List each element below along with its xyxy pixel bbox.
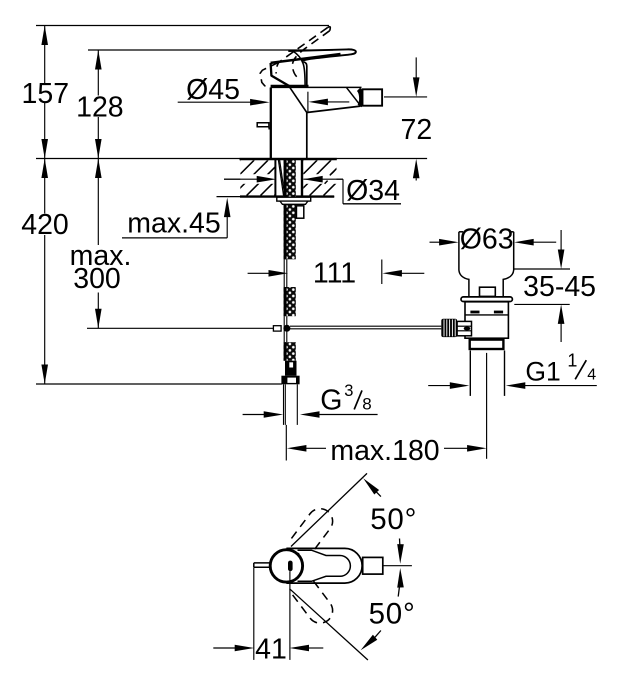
dashed raised handle tip: [327, 27, 330, 31]
angle arrow upper diagonal: [363, 478, 379, 494]
svg-text:G: G: [320, 385, 342, 417]
svg-text:max.180: max.180: [330, 435, 439, 467]
reference line max300: [87, 327, 273, 329]
dimension 41 arrows: [213, 647, 235, 649]
handle lever holder edge: [271, 54, 341, 63]
redraw O34 dim line over hatch: [224, 178, 257, 180]
hose braid segment 1: [284, 160, 296, 259]
rod junction dot: [283, 325, 290, 332]
svg-text:8: 8: [362, 394, 371, 413]
svg-text:Ø63: Ø63: [460, 223, 514, 255]
handle neck front curve: [293, 51, 305, 86]
reference line top of handle (128): [88, 49, 333, 51]
drain flange: [461, 297, 512, 302]
hatch gap band left: [240, 174, 274, 184]
dimension O34 left arrow: [224, 178, 257, 180]
dimension 35-45 arrows: [560, 230, 562, 251]
drain tailpipe: [469, 351, 471, 396]
svg-text:Ø45: Ø45: [186, 74, 240, 106]
shank slanted edge lines: [278, 160, 283, 196]
mounting washer: [277, 197, 311, 201]
extension line faucet center (max180): [285, 425, 287, 461]
drain body slots: [470, 311, 479, 314]
svg-text:50°: 50°: [370, 503, 417, 536]
dashed raised handle edge A: [276, 28, 327, 74]
svg-text:41: 41: [255, 634, 287, 666]
svg-text:3: 3: [344, 382, 353, 400]
svg-text:Ø34: Ø34: [346, 175, 400, 207]
reference line drain flange (35-45): [514, 303, 569, 305]
drain neck: [459, 270, 514, 297]
angle arrow lower vertical: [397, 568, 404, 588]
extension line spout tip (111): [381, 260, 383, 285]
extension line stub (41): [253, 568, 255, 660]
svg-text:50°: 50°: [369, 598, 416, 631]
drain cup sides: [458, 232, 460, 270]
handle base outline: [271, 63, 290, 86]
supply pipe: [283, 384, 285, 425]
handle neck right edge: [304, 62, 307, 87]
dimension line 128/max300: [97, 50, 99, 96]
hose thin connector 1: [283, 259, 285, 287]
svg-text:4: 4: [587, 367, 596, 384]
svg-text:G1: G1: [525, 357, 560, 387]
dimension O45 right arrow: [308, 99, 328, 106]
dimension G1-1/4 arrows: [428, 385, 451, 387]
svg-text:111: 111: [313, 258, 356, 290]
leader max45: [122, 237, 227, 239]
hose braid segment 3: [284, 342, 296, 361]
dimension G3/8 arrows: [243, 414, 264, 416]
hose braid segment 2: [284, 287, 296, 316]
extension line O45: [307, 92, 309, 112]
svg-text:35-45: 35-45: [523, 271, 596, 303]
svg-text:157: 157: [22, 78, 70, 110]
svg-text:420: 420: [21, 209, 69, 241]
aerator dark crescent: [359, 89, 362, 106]
dimension 111 right arrow: [382, 270, 402, 277]
drain cup top edge segments: [459, 231, 463, 233]
svg-text:72: 72: [401, 114, 433, 146]
faucet body right edge: [306, 113, 308, 159]
hatch stub right upper: [330, 171, 334, 175]
clamp screw block: [296, 206, 304, 218]
svg-text:128: 128: [76, 91, 124, 123]
rod adapter to drain: [457, 321, 471, 335]
plan view indicator dots: [297, 553, 299, 555]
svg-text:max.45: max.45: [127, 207, 220, 239]
G3/8 fitting upper: [285, 361, 297, 376]
dimension max180 arrows: [287, 445, 307, 452]
counter hole left edge: [274, 159, 276, 197]
drain body mid line: [465, 314, 508, 316]
angle arrow lower diagonal: [361, 635, 378, 651]
spout end slant line: [347, 88, 361, 106]
mousseur rectangle: [363, 89, 383, 105]
G3/8 fitting nut: [281, 376, 299, 385]
handle lever blade: [288, 49, 356, 61]
bottom reference line (420): [36, 383, 282, 385]
hose thin connector 2: [283, 316, 285, 342]
plan view handle inner outline: [298, 550, 351, 581]
countertop underside line: [217, 196, 335, 198]
extension line pivot (41): [289, 571, 291, 660]
dashed raised handle edge B: [293, 31, 330, 79]
drain knob rect: [480, 287, 496, 296]
plan view body circle: [270, 550, 302, 582]
svg-text:1: 1: [567, 351, 577, 371]
faucet body/spout top edge: [271, 86, 362, 88]
drain lower band: [470, 340, 504, 349]
plan view mousseur square: [363, 557, 383, 574]
plan view handle outer outline: [286, 548, 362, 583]
spout underside edge: [307, 106, 361, 112]
counter hole right edge: [301, 159, 303, 197]
dimension O63 right arrow: [514, 239, 534, 246]
plan view pivot blob: [288, 561, 293, 572]
dimension O45 left arrow: [178, 101, 251, 103]
body-spout junction diagonal: [290, 87, 307, 112]
dimension O34 right arrow: [303, 176, 323, 183]
angle arrow upper vertical: [397, 544, 404, 564]
dimension O63 left arrow: [430, 241, 442, 243]
dimension 111 left arrow: [248, 272, 269, 274]
dimension line 157/420: [44, 26, 46, 84]
svg-text:300: 300: [73, 263, 121, 295]
rod junction small rect: [273, 326, 281, 331]
leader O34: [342, 179, 344, 204]
drain body: [465, 302, 508, 338]
plan view center line: [383, 565, 412, 567]
dashed raised handle base: [260, 62, 279, 87]
extension line spout outlet (72): [384, 96, 427, 98]
reference line top of lifted handle (157): [36, 25, 329, 27]
extension line drain center (max180): [486, 353, 488, 459]
knurled knob on rod: [441, 319, 457, 337]
reference line drain top (35-45): [514, 268, 570, 270]
diagonal 50deg upper: [291, 473, 367, 546]
plan view spout stub: [254, 563, 271, 567]
diagonal 50deg lower: [290, 589, 368, 660]
escutcheon thick top edge: [271, 85, 309, 88]
plan view dashed handle up 50deg: [291, 504, 337, 554]
hatch gap band right: [303, 174, 336, 184]
dimension 72 arrows: [415, 57, 417, 77]
plan view dashed handle down 50deg: [291, 578, 337, 628]
mounting nut: [280, 201, 308, 204]
countertop surface line: [36, 158, 427, 160]
horizontal pop-up rod: [290, 325, 441, 327]
hatch stub right lower: [325, 181, 328, 184]
pop-up knob on body left: [257, 123, 269, 127]
faucet body left edge: [270, 88, 272, 159]
